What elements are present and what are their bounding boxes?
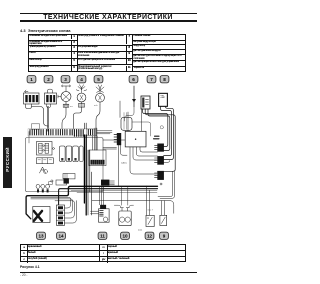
badge 4	[77, 76, 86, 83]
wires from terminal strip 14	[31, 197, 76, 223]
svg-text:2: 2	[47, 77, 50, 82]
svg-text:m-r: m-r	[70, 106, 73, 108]
badge 6	[129, 76, 138, 83]
fan motor (item 5)	[96, 85, 105, 105]
wires down to gas valve coils	[122, 187, 128, 206]
wires into sub-module	[93, 136, 98, 150]
colour code table right	[100, 244, 186, 263]
center vertical harness	[84, 128, 96, 215]
svg-text:4: 4	[80, 77, 83, 82]
header bottom thick rule	[20, 20, 197, 22]
svg-text:14: 14	[58, 233, 64, 238]
thick mains bus B	[59, 189, 158, 205]
svg-text:1: 1	[30, 77, 33, 82]
thin bus lines	[71, 191, 157, 193]
capacitor on strip	[121, 113, 163, 137]
legend table group 3 (items 12-18)	[133, 34, 186, 72]
svg-text:6: 6	[132, 77, 135, 82]
right black connectors column	[154, 136, 164, 179]
wire: electrode drop	[74, 107, 82, 129]
badge 1	[27, 76, 36, 83]
relay box T1	[125, 131, 146, 147]
svg-text:max t°: max t°	[148, 209, 154, 212]
badge 12	[145, 232, 154, 239]
legend table group 1 (items 1-6)	[28, 34, 78, 72]
header top rule	[20, 12, 197, 15]
fuse F1	[40, 167, 48, 173]
wire: fan drop	[96, 105, 100, 128]
svg-text:12: 12	[147, 233, 153, 238]
wires down to valve actuator	[100, 187, 104, 205]
wire from item 7 down to relay box T1	[120, 101, 142, 131]
LED D4	[51, 180, 53, 182]
svg-text:2(A41): 2(A41)	[121, 162, 127, 165]
page title	[0, 14, 216, 21]
wire: arrow item6 drop	[125, 107, 135, 122]
connector CN11	[49, 174, 76, 186]
section heading 4.3	[20, 28, 71, 33]
transformer (item 13)	[33, 207, 50, 223]
relay K1	[37, 142, 55, 156]
legend table group 2 (items 7-11)	[78, 34, 133, 72]
badge 5	[94, 76, 103, 83]
svg-text:5: 5	[97, 77, 100, 82]
terminal strip (item 14)	[57, 205, 65, 225]
language sidebar tab	[3, 137, 13, 188]
wires into CN12	[103, 140, 125, 149]
wires from relay box T1 to right connectors	[119, 145, 158, 186]
connector comb CN12	[114, 133, 121, 145]
badge 3	[61, 76, 70, 83]
ignition electrode (item 4)	[76, 85, 87, 107]
colour code table left	[20, 244, 100, 263]
thick mains bus A	[26, 186, 157, 219]
svg-text:13: 13	[38, 233, 44, 238]
svg-text:3: 3	[64, 77, 67, 82]
capacitor C4	[79, 146, 83, 162]
wire: X1 to board	[32, 107, 49, 127]
sub connector module	[89, 150, 106, 166]
svg-text:9: 9	[163, 233, 166, 238]
DHW sensor (item 12)	[146, 209, 154, 227]
badge 9	[160, 232, 169, 239]
terminal block X2 (item 2)	[45, 89, 57, 104]
page number	[20, 273, 27, 277]
wires bottom right	[92, 186, 174, 215]
badge 14	[57, 232, 66, 239]
valve actuator (item 11)	[91, 205, 110, 222]
wire: pump drop	[62, 107, 66, 129]
figure caption	[20, 265, 40, 269]
svg-text:7: 7	[150, 77, 153, 82]
svg-text:10: 10	[122, 233, 128, 238]
capacitor C3	[73, 146, 79, 162]
svg-text:m-b: m-b	[94, 105, 98, 107]
flue pressure switch (item 8)	[159, 93, 168, 106]
wire group: nested corners from items 7/8	[143, 107, 176, 172]
svg-text:c: c	[47, 91, 48, 93]
terminal block X1 (item 1)	[24, 90, 40, 104]
svg-text:(б/р): (б/р)	[138, 230, 142, 232]
harness stubs above comb	[84, 123, 86, 129]
badge 7	[147, 76, 156, 83]
capacitor C1	[60, 146, 66, 162]
pump motor (item 3)	[58, 85, 71, 107]
badge 10	[121, 232, 130, 239]
LED row	[36, 184, 50, 192]
wire: X2 drop	[47, 104, 51, 131]
air pressure switch (item 7)	[141, 96, 150, 109]
CH sensor (item 9)	[160, 215, 167, 225]
wires to coils	[114, 205, 133, 208]
wire: X1 jumper loop	[26, 104, 32, 109]
wire stub to comb 2	[164, 161, 170, 163]
capacitor C2	[66, 146, 72, 162]
tiny wire labels	[47, 91, 98, 109]
svg-text:11: 11	[100, 233, 105, 238]
svg-text:8: 8	[163, 77, 166, 82]
badge 2	[44, 76, 53, 83]
badge 11	[98, 232, 107, 239]
connector housing above strip	[32, 124, 40, 130]
badge 13	[37, 232, 46, 239]
relay K2	[37, 158, 54, 164]
black module under bus	[101, 180, 114, 186]
footer rule	[20, 271, 197, 274]
main connector comb strip	[28, 129, 112, 137]
flow arrow (item 6)	[132, 86, 136, 107]
gas valve coils (item 10)	[119, 208, 131, 226]
badge 8	[160, 76, 169, 83]
wires from comb 3 down	[158, 172, 174, 199]
wiring schematic	[0, 0, 200, 284]
main PCB outline	[26, 138, 104, 192]
